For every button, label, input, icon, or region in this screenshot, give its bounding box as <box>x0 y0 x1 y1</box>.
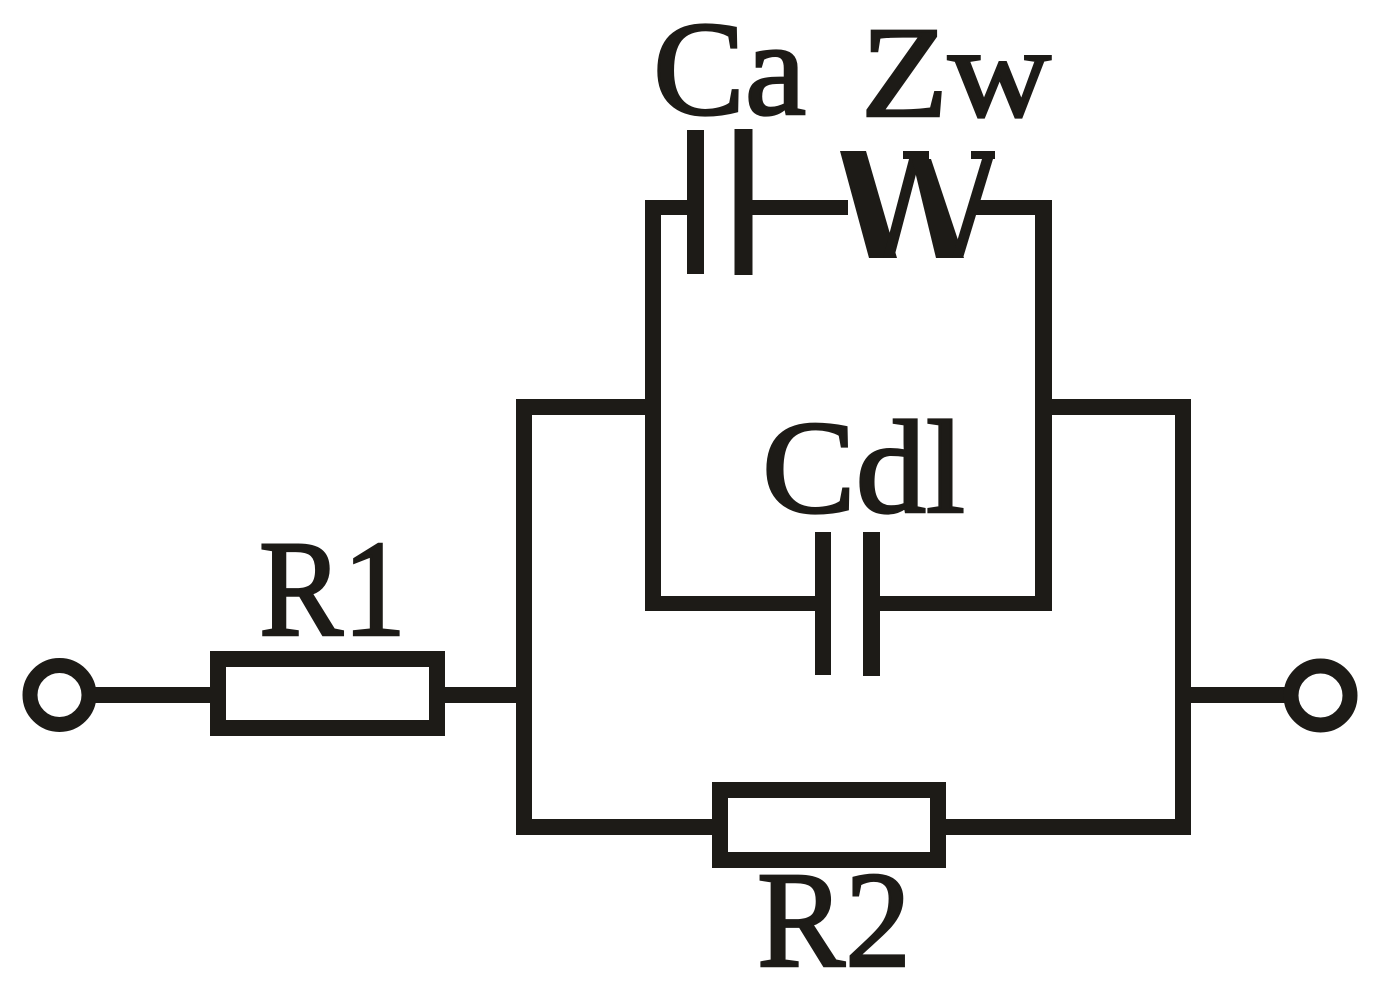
Warburg element Zw (W symbol) <box>840 151 995 258</box>
resistor R1 <box>218 659 437 728</box>
wire: outer-left vertical (junction riser) <box>516 399 532 835</box>
svg-text:R2: R2 <box>757 843 911 996</box>
terminal right (output node) <box>1291 666 1350 725</box>
svg-text:Zw: Zw <box>861 1 1051 145</box>
wire: R1 to left junction <box>445 687 532 703</box>
wire: inner box right vertical <box>1035 200 1052 611</box>
svg-text:Ca: Ca <box>653 0 806 144</box>
wire: outer-right vertical to right terminal <box>1191 687 1288 703</box>
wire: Ca to Zw <box>752 200 848 215</box>
svg-text:Cdl: Cdl <box>762 393 965 541</box>
capacitor Ca right plate <box>735 129 753 275</box>
wire: bottom horizontal of outer loop <box>516 819 1191 835</box>
terminal left (input node) <box>30 666 89 725</box>
wire: middle-left horizontal to inner box <box>516 399 661 415</box>
capacitor Ca left plate <box>687 130 704 274</box>
resistor R2 <box>720 790 938 860</box>
wire: inner box left vertical <box>645 200 661 611</box>
wire: middle-right horizontal from inner box <box>1035 399 1191 415</box>
wire: inner box bottom-left horizontal <box>645 596 817 611</box>
wire: inner box top-left horizontal <box>645 200 689 215</box>
wire: Zw to inner box top-right <box>975 200 1052 215</box>
capacitor Cdl left plate <box>815 532 831 675</box>
wire: outer-right vertical <box>1175 399 1191 835</box>
capacitor Cdl right plate <box>863 532 880 676</box>
wire: left terminal to R1 <box>86 687 214 703</box>
svg-text:R1: R1 <box>259 512 406 665</box>
wire: inner box bottom-right horizontal <box>879 596 1052 611</box>
